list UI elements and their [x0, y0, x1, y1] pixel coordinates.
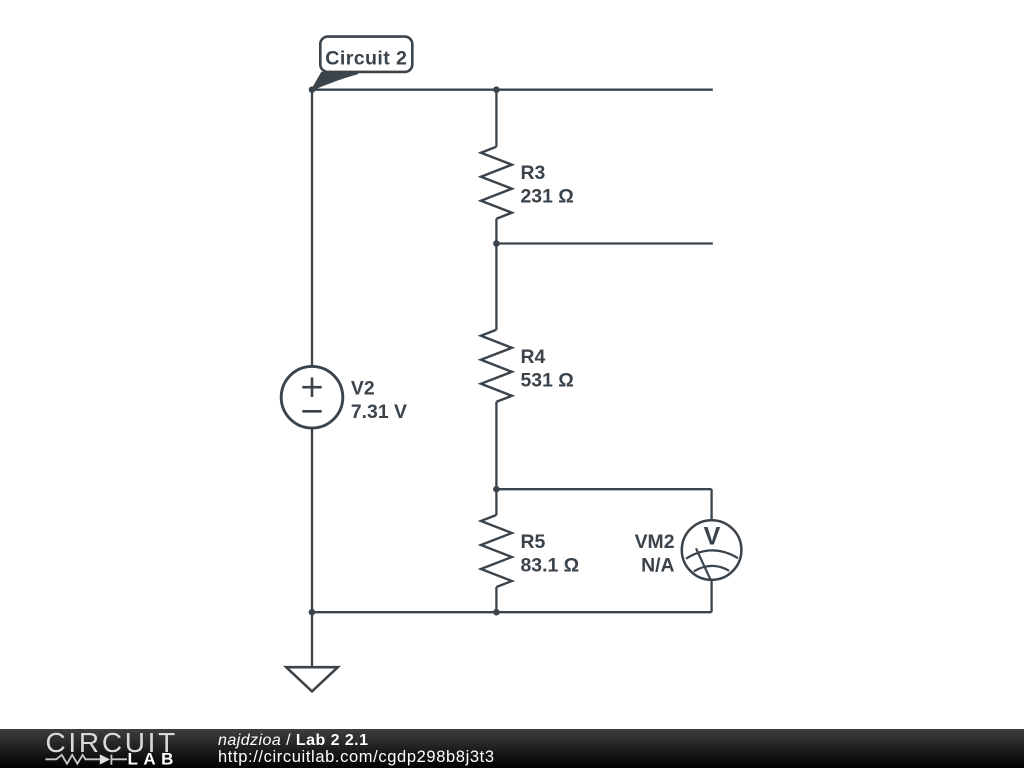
- wire voltmeter top lead: [710, 489, 712, 520]
- node top R3 junction: [493, 86, 500, 93]
- footer bar: [0, 729, 1024, 768]
- svg-text:R3: R3: [521, 162, 546, 184]
- CircuitLab logo resistor-diode glyph: [46, 755, 128, 765]
- svg-text:83.1 Ω: 83.1 Ω: [521, 555, 580, 577]
- node junction dots: [309, 86, 500, 615]
- svg-text:V2: V2: [351, 377, 375, 399]
- wire node B to voltmeter branch: [496, 488, 711, 490]
- node R4/R5 junction: [493, 486, 500, 493]
- node R3/R4 junction: [493, 240, 500, 247]
- wire bottom rail: [312, 611, 712, 613]
- svg-text:R4: R4: [521, 346, 546, 368]
- net flag Circuit 2: [312, 37, 413, 90]
- voltage source V2: [281, 366, 343, 428]
- svg-text:Circuit 2: Circuit 2: [325, 48, 407, 70]
- resistor R3: [481, 147, 512, 219]
- wire middle rail: [496, 242, 712, 244]
- wire R4 top lead: [495, 244, 497, 330]
- wire ground lead: [311, 612, 313, 667]
- resistor R5: [481, 515, 512, 587]
- svg-text:N/A: N/A: [641, 555, 674, 577]
- wire voltmeter bottom lead: [710, 580, 712, 613]
- svg-text:7.31 V: 7.31 V: [351, 401, 407, 423]
- credit text: [218, 732, 495, 767]
- svg-text:V: V: [704, 522, 721, 550]
- wire R4 bottom lead: [495, 402, 497, 489]
- svg-text:LAB: LAB: [128, 750, 179, 769]
- voltmeter VM2: [682, 520, 742, 580]
- label R4 value: [521, 346, 574, 392]
- wire R5 bottom lead: [495, 587, 497, 612]
- label VM2 value: [635, 531, 675, 577]
- resistor R4: [481, 330, 512, 402]
- wire R3 bottom lead: [495, 219, 497, 244]
- label R5 value: [521, 531, 580, 577]
- svg-text:231 Ω: 231 Ω: [521, 185, 574, 207]
- label V2 value: [351, 377, 407, 423]
- wire left rail lower (V2 bottom to bottom rail): [311, 428, 313, 612]
- node R5 bottom junction: [493, 609, 500, 616]
- wire R5 top lead: [495, 489, 497, 515]
- ground: [286, 667, 338, 691]
- wire top rail: [311, 89, 713, 91]
- svg-text:531 Ω: 531 Ω: [521, 370, 574, 392]
- wire left rail upper (node to V2 top): [311, 90, 313, 367]
- svg-text:VM2: VM2: [635, 531, 675, 553]
- node top-left junction: [309, 86, 316, 93]
- wire R3 top lead: [495, 90, 497, 147]
- node bottom-left junction: [309, 609, 316, 616]
- label R3 value: [521, 162, 574, 208]
- svg-text:R5: R5: [521, 531, 546, 553]
